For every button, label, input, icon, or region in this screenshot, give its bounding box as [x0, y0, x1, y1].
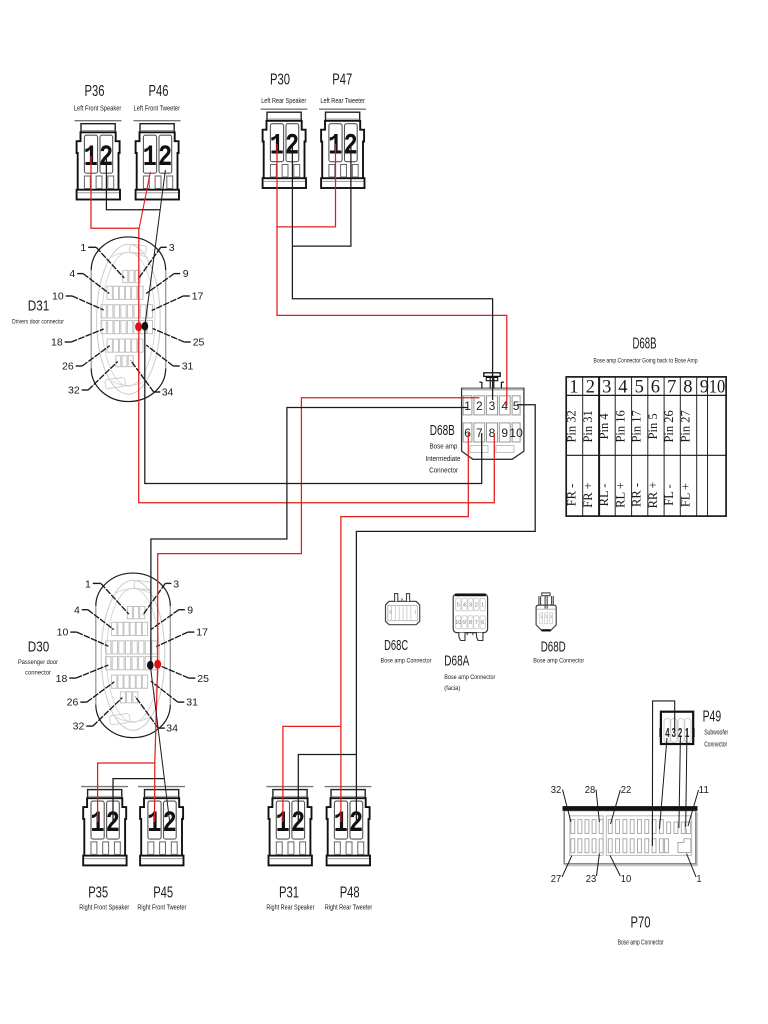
- svg-text:23: 23: [586, 873, 597, 885]
- svg-text:D68B: D68B: [430, 423, 455, 439]
- svg-text:Passenger door: Passenger door: [18, 659, 59, 666]
- svg-text:Connector: Connector: [704, 742, 727, 749]
- svg-text:P45: P45: [153, 885, 173, 902]
- svg-text:Bose amp Connector: Bose amp Connector: [381, 658, 433, 665]
- svg-text:D31: D31: [28, 298, 50, 315]
- svg-text:8: 8: [469, 620, 472, 626]
- svg-text:P48: P48: [340, 885, 360, 902]
- svg-text:10: 10: [709, 378, 726, 398]
- svg-text:Connector: Connector: [429, 467, 459, 474]
- svg-text:Intermediate: Intermediate: [426, 456, 461, 463]
- svg-text:2: 2: [475, 603, 478, 609]
- svg-text:7: 7: [667, 378, 676, 398]
- svg-text:11: 11: [699, 784, 710, 796]
- svg-text:6: 6: [651, 378, 660, 398]
- svg-text:Pin 16: Pin 16: [613, 410, 627, 442]
- svg-text:10: 10: [621, 873, 632, 885]
- svg-text:Bose amp Connector Going back: Bose amp Connector Going back to Bose Am…: [594, 357, 698, 364]
- svg-text:5: 5: [513, 399, 520, 413]
- svg-text:RR +: RR +: [646, 482, 660, 509]
- svg-text:22: 22: [621, 784, 632, 796]
- svg-text:FL +: FL +: [679, 483, 693, 507]
- svg-text:P46: P46: [149, 83, 169, 100]
- svg-text:P31: P31: [279, 885, 299, 902]
- svg-text:Right Rear Speaker: Right Rear Speaker: [266, 903, 314, 912]
- svg-text:Pin 17: Pin 17: [630, 410, 644, 442]
- svg-text:Pin 31: Pin 31: [581, 410, 595, 442]
- svg-text:Left Front Tweeter: Left Front Tweeter: [134, 104, 181, 113]
- svg-text:1: 1: [569, 378, 578, 398]
- svg-text:1: 1: [464, 399, 471, 413]
- svg-text:6: 6: [481, 620, 484, 626]
- svg-text:2: 2: [476, 399, 483, 413]
- svg-text:4: 4: [665, 727, 669, 740]
- svg-text:5: 5: [457, 603, 460, 609]
- svg-text:27: 27: [551, 873, 562, 885]
- svg-text:5: 5: [635, 378, 644, 398]
- svg-text:7: 7: [475, 620, 478, 626]
- svg-text:Pin 5: Pin 5: [646, 413, 660, 439]
- svg-text:FL -: FL -: [662, 484, 676, 505]
- svg-text:28: 28: [585, 784, 596, 796]
- svg-text:Subwoofer: Subwoofer: [704, 730, 728, 737]
- svg-text:P36: P36: [85, 83, 105, 100]
- svg-text:D68B: D68B: [633, 336, 657, 353]
- svg-text:Pin 27: Pin 27: [679, 410, 693, 442]
- svg-text:Pin 32: Pin 32: [565, 410, 579, 442]
- svg-text:Left Rear Tweeter: Left Rear Tweeter: [320, 96, 365, 105]
- svg-text:2: 2: [586, 378, 595, 398]
- svg-text:D68A: D68A: [444, 654, 469, 670]
- svg-text:4: 4: [618, 378, 627, 398]
- svg-text:Bose amp Connector: Bose amp Connector: [533, 658, 585, 665]
- svg-text:P49: P49: [703, 709, 722, 726]
- svg-text:1: 1: [481, 603, 484, 609]
- svg-text:D30: D30: [28, 639, 50, 656]
- svg-text:P47: P47: [332, 72, 352, 89]
- svg-text:Bose amp: Bose amp: [430, 444, 458, 451]
- svg-text:9: 9: [463, 620, 466, 626]
- svg-text:1: 1: [697, 873, 702, 885]
- svg-text:Pin 4: Pin 4: [597, 413, 611, 440]
- svg-text:P35: P35: [88, 885, 108, 902]
- svg-text:D68C: D68C: [384, 638, 408, 654]
- svg-text:10: 10: [455, 620, 461, 626]
- svg-text:Left Front Speaker: Left Front Speaker: [74, 104, 122, 113]
- svg-text:3: 3: [469, 603, 472, 609]
- svg-text:4: 4: [463, 603, 466, 609]
- svg-text:Bose amp Connector: Bose amp Connector: [618, 939, 664, 946]
- svg-text:connector: connector: [25, 670, 52, 677]
- svg-text:D68D: D68D: [541, 640, 566, 656]
- svg-text:32: 32: [551, 784, 562, 796]
- svg-text:FR -: FR -: [565, 484, 579, 507]
- svg-text:P70: P70: [631, 915, 651, 932]
- svg-text:Right Front Speaker: Right Front Speaker: [79, 903, 129, 912]
- svg-text:(facia): (facia): [444, 685, 460, 692]
- svg-text:RL -: RL -: [597, 484, 611, 507]
- svg-text:8: 8: [683, 378, 692, 398]
- svg-text:3: 3: [602, 378, 611, 398]
- svg-text:Bose amp Connector: Bose amp Connector: [444, 674, 496, 681]
- svg-text:Pin 26: Pin 26: [662, 410, 676, 442]
- svg-text:FR +: FR +: [581, 482, 595, 507]
- svg-text:9: 9: [700, 378, 709, 398]
- svg-text:3: 3: [672, 727, 676, 740]
- svg-text:Drivers door connector: Drivers door connector: [12, 319, 65, 326]
- svg-text:Left Rear Speaker: Left Rear Speaker: [261, 96, 306, 105]
- svg-text:10: 10: [509, 426, 523, 440]
- svg-text:Right Front Tweeter: Right Front Tweeter: [137, 903, 186, 912]
- svg-text:3: 3: [489, 399, 496, 413]
- svg-text:P30: P30: [270, 72, 290, 89]
- svg-text:RR -: RR -: [630, 483, 644, 507]
- svg-text:9: 9: [501, 426, 508, 440]
- svg-text:Right Rear Tweeter: Right Rear Tweeter: [325, 903, 373, 912]
- svg-text:RL +: RL +: [613, 482, 627, 508]
